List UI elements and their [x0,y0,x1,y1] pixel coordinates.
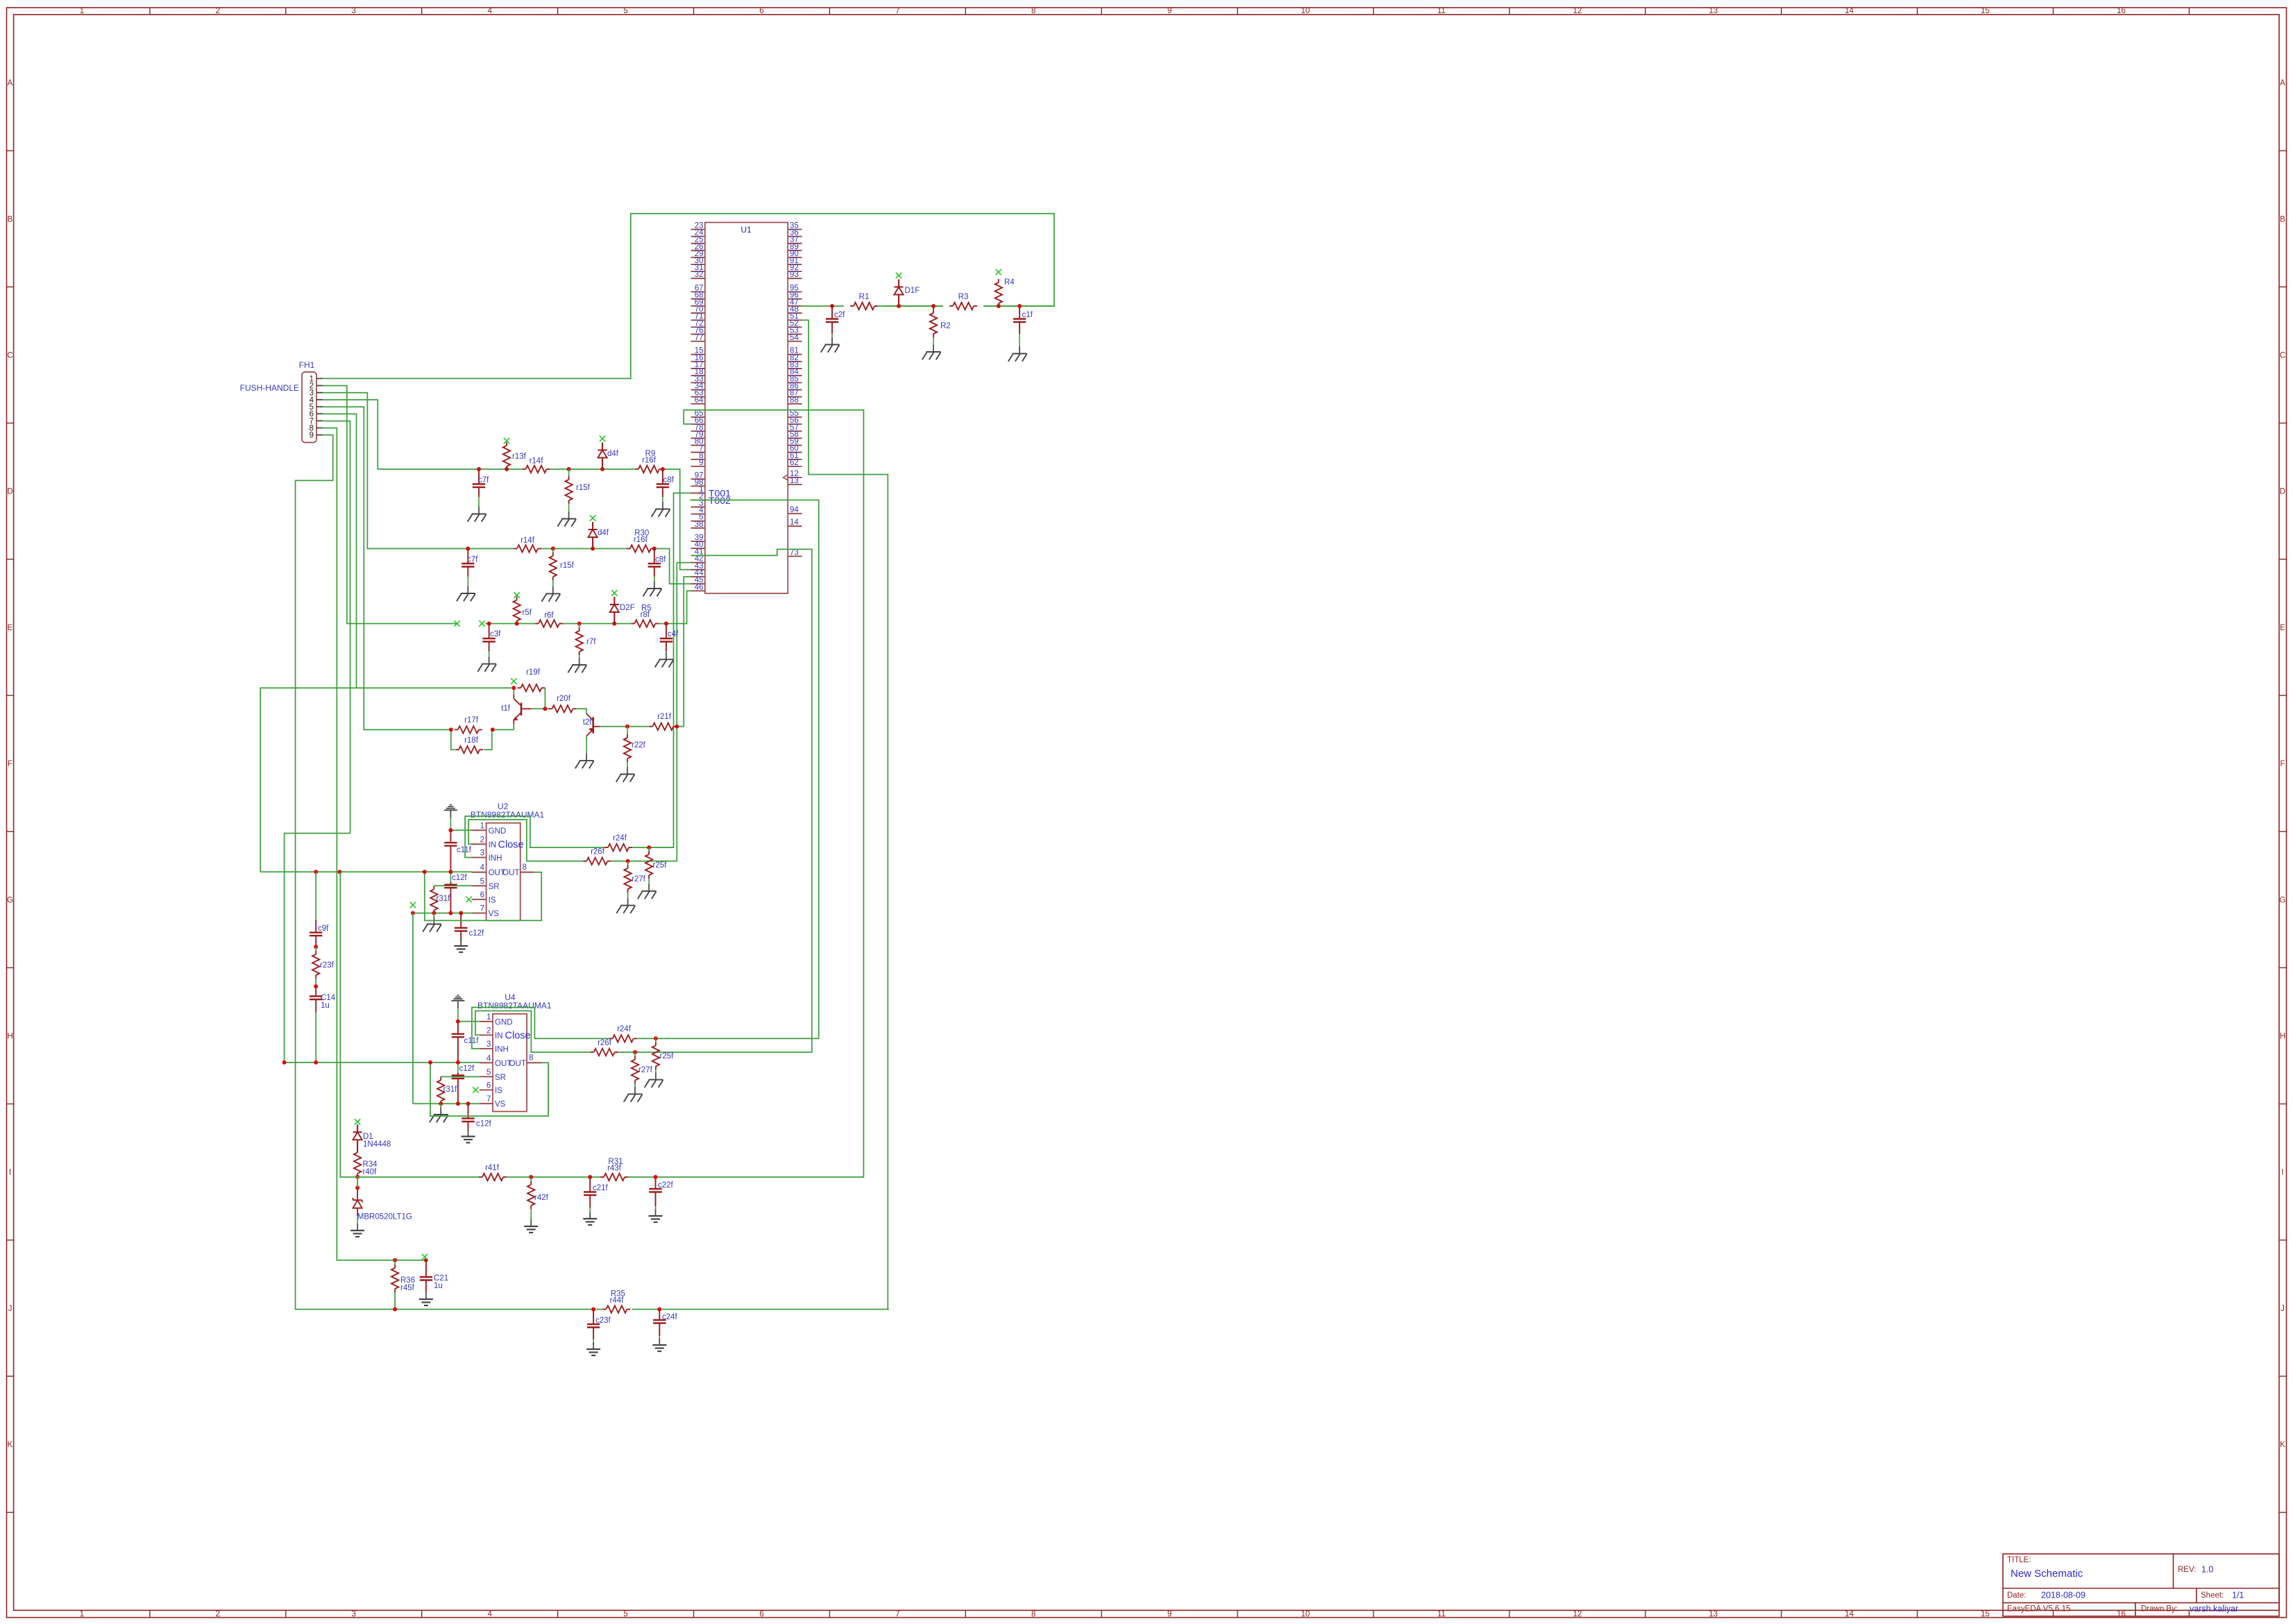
svg-text:d4f: d4f [598,529,609,537]
svg-text:c9f: c9f [318,924,329,933]
U1 pin 25 [691,236,705,244]
junction [657,1308,661,1312]
diode MBR0520LT1G [353,1187,412,1221]
U2 pin 3 INH [472,849,502,863]
junction [314,984,318,988]
U1 pin 83 [788,361,802,369]
r42f stub [530,1177,532,1181]
FH1 pin 5 [310,403,323,412]
wire U2 OUT8 bottom wrap [425,872,541,920]
no-connect X [611,590,617,595]
c12f U2 a stub [450,872,451,882]
ground at r25f U2 [638,879,657,899]
svg-text:c8f: c8f [663,476,675,484]
ground at c7f row1 [468,497,486,522]
U1 pin 76 [691,327,705,335]
junction [647,845,651,849]
resistor R35 r44f [602,1290,630,1313]
U1 pin 52 [788,319,802,328]
junction [448,828,452,832]
svg-text:14: 14 [790,518,799,527]
svg-text:B: B [8,215,13,223]
U1 pin 36 [788,229,802,237]
wire U1.51 down right side [802,320,890,1309]
U4 pin 7 VS [480,1095,506,1109]
svg-text:VS: VS [495,1101,506,1109]
no-connect X [896,273,902,278]
c12f U4 a stub [457,1063,459,1073]
svg-text:7: 7 [895,7,899,15]
wire R1-R3 segment [884,305,943,307]
resistor R4 [995,279,1002,307]
resistor R30 r16f [627,530,654,552]
svg-text:R1: R1 [859,293,870,301]
svg-text:1: 1 [486,1013,491,1022]
U1 pin 24 [691,229,705,237]
U1 pin 66 [691,416,705,425]
capacitor c24f [653,1310,677,1337]
svg-text:D: D [2280,488,2285,496]
wire U2 GND row [450,829,471,831]
ground at c2f [821,334,840,353]
ground at c4f [655,652,674,668]
svg-text:9: 9 [1167,7,1171,15]
svg-text:2: 2 [486,1026,491,1035]
FH1 pin 3 [310,389,323,398]
svg-text:r25f: r25f [660,1052,675,1060]
svg-text:1/1: 1/1 [2232,1591,2244,1600]
U1 pin 88 [788,396,802,405]
svg-text:New Schematic: New Schematic [2011,1568,2083,1580]
svg-text:A: A [2280,79,2285,87]
svg-text:1: 1 [80,1610,84,1618]
wire R1 net mid [878,305,943,307]
wire r19f net / FH1.6 net [260,688,514,872]
U1 pin 14 [788,518,802,527]
junction [459,911,463,915]
svg-text:c3f: c3f [490,630,501,638]
wire row3 to U1 pin46 [659,591,691,623]
r25f stub U2 [648,847,650,851]
svg-text:MBR0520LT1G: MBR0520LT1G [357,1213,412,1221]
resistor r25f U2 [645,851,652,879]
U1 pin 5 [691,514,705,522]
junction [626,859,630,863]
svg-text:G: G [7,896,13,904]
U1 pin 32 [691,271,705,279]
svg-text:r41f: r41f [485,1164,500,1172]
ground at r27f U2 [616,893,635,913]
svg-text:R3: R3 [958,293,969,301]
U1 pin 54 [788,334,802,342]
r27f stub U2 [627,861,629,865]
svg-text:r15f: r15f [560,561,575,570]
R2 top lead [933,306,934,310]
svg-text:Date:: Date: [2007,1591,2027,1600]
X at U2 IS pin [466,897,471,902]
resistor r17f [455,726,482,733]
r25f stub U4 [655,1038,657,1042]
svg-text:r20f: r20f [557,695,571,703]
U1 pin 89 [788,243,802,251]
U4 pin 1 GND [480,1013,513,1027]
svg-text:13: 13 [1709,1610,1718,1618]
svg-text:7: 7 [480,905,484,913]
resistor R9 r16f [635,450,663,473]
svg-text:r14f: r14f [530,457,544,466]
svg-text:B: B [2280,215,2285,223]
junction [567,467,571,471]
ground at c8f row2 [643,577,662,597]
capacitor c8f row1 [657,469,675,497]
U1 pin 92 [788,264,802,272]
svg-text:R31: R31 [608,1158,623,1166]
svg-text:11: 11 [1437,7,1446,15]
U1 pin 40 [691,541,705,549]
U1 pin 16 [691,354,705,362]
svg-text:r22f: r22f [632,741,646,750]
U1 pin 37 [788,236,802,244]
U1 pin 26 [691,243,705,251]
junction [456,1020,460,1024]
earth ground at c12f U4 [462,1130,475,1143]
U1 pin 43 [691,562,705,570]
svg-text:IS: IS [489,896,496,904]
svg-text:93: 93 [790,271,799,279]
X at U4 IS pin [473,1087,478,1092]
junction [588,1175,592,1179]
resistor r14f row2 [514,536,541,552]
no-connect X [514,592,520,598]
U1 pin 98 [691,478,705,487]
junction [600,467,604,471]
svg-text:15: 15 [1981,7,1990,15]
svg-text:12: 12 [1573,7,1582,15]
resistor r27f U4 [632,1056,638,1084]
resistor r26f U2 [583,858,611,865]
junction [314,945,318,949]
resistor R3 [949,303,977,310]
U4 pin 8 OUT [509,1054,542,1068]
U2 pin 8 OUT [502,863,534,877]
svg-text:c12f: c12f [469,929,485,938]
svg-text:Sheet:: Sheet: [2201,1591,2224,1600]
U1 pin 15 [691,347,705,355]
r22f stub [627,727,628,734]
resistor r18f [455,746,483,753]
U2 pin 4 OUT [472,864,505,878]
svg-text:10: 10 [1301,1610,1310,1618]
wire to U1 pin47 [802,305,845,307]
resistor R5 r8f [631,604,659,627]
wire R34 to MBR [357,1177,358,1188]
wire U2 INH wrap to r24f [465,816,604,858]
ground at c3f [477,652,496,672]
U1 pin 67 [691,285,705,293]
capacitor c11f U4 [452,1022,479,1063]
U1 pin 97 [691,471,705,480]
svg-text:c4f: c4f [668,630,679,638]
U1 pin 59 [788,438,802,446]
U1 pin 57 [788,423,802,432]
svg-text:C: C [2280,352,2285,360]
svg-text:VS: VS [489,910,500,918]
svg-text:11: 11 [1437,1610,1446,1618]
svg-text:8: 8 [1031,7,1035,15]
wire U4 VS row [413,1103,480,1104]
svg-text:94: 94 [790,506,799,514]
wire FH1.8 to R36 row [323,428,395,1260]
U1 pin 58 [788,430,802,439]
svg-text:3: 3 [352,7,356,15]
svg-text:GND: GND [489,827,507,836]
U4 pin 3 INH [480,1040,509,1054]
D1 lead [357,1149,358,1151]
no-connect X [590,515,595,521]
junction [477,467,481,471]
wire t1f base [532,708,545,709]
wire r18f left [451,729,455,750]
U2 pin 6 IS [472,891,496,905]
svg-text:BTN8982TAAUMA1: BTN8982TAAUMA1 [477,1001,552,1010]
diode D2F [610,597,635,624]
svg-text:r7f: r7f [586,638,596,646]
wire r26f to r27f junction [611,861,627,862]
U1 pin 34 [691,382,705,391]
X on row3 wire [454,620,459,626]
diode d4f row1 [598,443,618,470]
capacitor c4f [660,624,679,652]
svg-text:r27f: r27f [638,1066,653,1074]
U1 pin 78 [691,423,705,432]
svg-text:r25f: r25f [653,861,668,870]
earth ground at c23f [586,1339,600,1356]
svg-text:D: D [7,488,12,496]
junction [997,304,1001,308]
capacitor c7f row1 [473,469,489,497]
svg-text:8: 8 [523,863,527,872]
U1 pin 51 [788,312,802,321]
junction [314,1060,318,1065]
U1 pin 71 [691,312,705,321]
capacitor C14 [310,986,322,1013]
svg-text:R9: R9 [645,450,656,458]
junction [439,1101,443,1106]
resistor R2 [930,310,937,337]
junction [411,911,415,915]
wire r41f row mid [507,1176,600,1178]
svg-text:13: 13 [1709,7,1718,15]
earth ground at c12f U2 [454,939,468,952]
U2 pin 1 GND [472,822,507,836]
svg-text:H: H [7,1033,12,1041]
junction [664,622,668,626]
svg-text:K: K [2280,1441,2285,1449]
wire U2 OUT row [260,871,471,872]
svg-text:K: K [8,1441,13,1449]
driver U2 body [486,823,521,921]
wire bottom row b [632,1309,888,1310]
svg-text:1u: 1u [321,1001,330,1010]
wire U4 IN wrap to r26f [475,1011,591,1053]
U1 pin 48 [788,305,802,314]
U1 pin 81 [788,347,802,355]
junction [591,547,595,551]
power flag above U4 [451,995,464,1022]
junction [282,1060,287,1065]
svg-text:I: I [9,1169,11,1177]
connector FH1 body [302,372,316,443]
svg-text:9: 9 [699,459,703,467]
junction [393,1308,397,1312]
svg-text:c8f: c8f [655,556,666,564]
svg-text:I: I [2281,1169,2283,1177]
wire FH1.4 to row1 [323,400,522,469]
junction [456,1060,460,1065]
X on row3 wire 2 [479,620,484,626]
wire r23f to C14 [315,979,316,986]
title block [2003,1554,2279,1616]
svg-text:TITLE:: TITLE: [2007,1556,2031,1564]
svg-text:r24f: r24f [613,834,627,843]
svg-text:14: 14 [1845,7,1854,15]
junction [675,725,679,729]
svg-text:c24f: c24f [662,1313,678,1321]
U1 pin 93 [788,271,802,279]
junction [355,1175,359,1179]
junction [505,467,509,471]
svg-text:5: 5 [480,877,484,886]
svg-text:IN: IN [489,841,497,849]
svg-text:2: 2 [480,836,484,844]
FH1 pin 9 [310,432,323,440]
U1 pin 60 [788,445,802,453]
junction [931,304,936,308]
svg-text:r21f: r21f [657,713,672,721]
capacitor C21 [420,1260,432,1292]
svg-text:r14f: r14f [521,536,535,545]
U1 pin 41 [691,548,705,556]
wire U1 pin42 stub [677,562,691,564]
wire U1.66 across and down [684,410,863,1177]
no-connect X [996,269,1001,275]
capacitor c22f [649,1177,673,1206]
junction [661,467,665,471]
svg-text:E: E [8,624,13,632]
svg-text:R2: R2 [940,322,951,330]
junction [393,1258,397,1262]
svg-text:r31f: r31f [437,895,451,903]
U1 pin 86 [788,382,802,391]
svg-text:6: 6 [486,1082,491,1090]
U1 pin 64 [691,396,705,405]
wire U2 OUT down to r41f row [340,872,479,1177]
U1 pin 69 [691,298,705,307]
svg-text:SR: SR [495,1074,506,1082]
svg-text:t2f: t2f [583,718,593,727]
svg-text:R5: R5 [641,604,652,613]
svg-text:U1: U1 [741,225,752,235]
wire U2 VS to U4 VS [412,913,414,1104]
U1 pin 82 [788,354,802,362]
resistor r42f [527,1181,534,1209]
wire T001 net U1.1 to U2 r24f [649,493,691,847]
svg-text:FH1: FH1 [299,360,315,370]
wire FH1.6 down [323,414,356,688]
svg-text:c21f: c21f [593,1184,609,1192]
FH1 pin 8 [310,425,323,433]
svg-text:88: 88 [790,396,799,405]
U2 pin 2 IN [472,836,497,849]
wire U2 SR row [434,885,471,886]
capacitor c12f U2 b [455,913,484,941]
svg-text:R4: R4 [1004,278,1015,287]
svg-text:E: E [2280,624,2285,632]
svg-text:4: 4 [487,1610,492,1618]
svg-text:14: 14 [1845,1610,1854,1618]
resistor r14f row1 [523,457,550,473]
wire FH1.5 to r17f row [323,407,451,729]
svg-text:r26f: r26f [598,1039,612,1047]
svg-text:r45f: r45f [400,1284,415,1292]
wire bottom row a [395,1309,602,1310]
ground at r22f [616,762,635,782]
U1 pin 7 [691,445,705,453]
power flag above U2 [444,805,457,831]
U1 pin 44 [691,569,705,577]
r23f stub [315,947,316,951]
resistor r41f [479,1174,507,1181]
junction [591,1308,595,1312]
U4 pin 2 IN [480,1026,503,1040]
junction [314,870,318,874]
capacitor c12f U4 a [452,1065,475,1103]
U1 pin 85 [788,375,802,383]
resistor R36 [391,1264,398,1292]
svg-text:7: 7 [895,1610,899,1618]
U1 pin 94 [788,506,802,514]
wire FH1.9 to bottom row [296,435,395,1310]
earth ground at MBR [350,1216,364,1237]
resistor r23f [312,951,319,979]
wire U2 IN wrap to r26f [468,820,583,861]
U1 pin 70 [691,305,705,314]
wire t2f emitter stub [586,736,587,741]
junction [448,870,452,874]
junction [897,304,901,308]
U1 pin 33 [691,375,705,383]
wire U4 SR row [441,1076,480,1077]
svg-text:Drawn By:: Drawn By: [2141,1605,2178,1614]
wire r41f row right [628,1176,863,1178]
resistor r15f row2 [550,552,557,580]
earth ground at c24f [652,1336,666,1351]
resistor r6f [535,611,563,627]
svg-text:J: J [2281,1305,2285,1313]
svg-text:3: 3 [352,1610,356,1618]
svg-text:R35: R35 [611,1290,625,1299]
U4 pin 5 SR [480,1068,506,1082]
U1 pin 9 [691,459,705,467]
svg-text:9: 9 [310,432,314,440]
U1 pin 84 [788,368,802,376]
svg-text:4: 4 [486,1054,491,1063]
svg-text:G: G [2280,896,2286,904]
U1 pin 23 [691,222,705,230]
junction [515,622,519,626]
svg-text:c12f: c12f [476,1120,492,1128]
svg-text:r13f: r13f [512,452,527,461]
